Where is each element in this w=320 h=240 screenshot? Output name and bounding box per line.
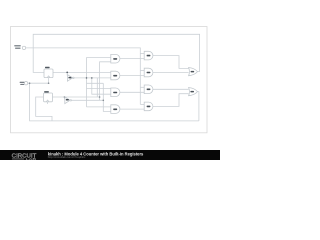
- wire L3 bottom input riser: [92, 78, 111, 94]
- AND gate L4: [111, 105, 120, 114]
- wire FF2 clock stub: [47, 102, 49, 104]
- wire INV2 input drop: [64, 97, 66, 99]
- wire OR2 out down: [197, 92, 199, 121]
- AND gate R4: [144, 102, 153, 111]
- D flip-flop FF1: [44, 67, 53, 78]
- wire top feedback bus: [33, 34, 199, 72]
- junction at FF1 clock tap: [48, 82, 50, 84]
- wire crossbar riser: [96, 78, 98, 97]
- AND gate R1: [144, 51, 153, 60]
- wire CLK1 input run: [26, 48, 141, 105]
- wire L1 out to R1: [120, 58, 144, 60]
- junction on Q1-bar wire at riser x=91.8: [91, 77, 93, 79]
- AND gate L3: [111, 88, 120, 97]
- svg-text:http://circuitlab.com/c/7eq44c: http://circuitlab.com/c/7eq44cx: [48, 155, 86, 159]
- svg-text:LAB: LAB: [26, 157, 37, 161]
- AND gate L2: [111, 71, 120, 80]
- wire R4 top stub: [140, 103, 144, 105]
- junction on Q2 wire at riser x=99.6: [99, 96, 101, 98]
- wire L3 out to R3: [120, 91, 144, 93]
- junction on Q1-bar wire at riser x=86.5: [86, 77, 88, 79]
- wire FF1 clock stub: [48, 78, 50, 84]
- wire L1 bottom input: [100, 62, 111, 101]
- wire L4 bottom input dropper: [103, 83, 111, 111]
- wire OR1 out: [198, 71, 200, 73]
- AND gate L1: [111, 54, 120, 63]
- wire L4 out to R4: [120, 108, 144, 110]
- OR gate OR2: [189, 88, 198, 96]
- junction at clock branch to bottom bus: [29, 82, 31, 84]
- wire mid jog: [87, 82, 104, 84]
- wire FF1 Q to L2 top: [53, 71, 111, 73]
- wire L2 out to R2: [120, 75, 144, 77]
- input terminal IN1: [14, 45, 25, 49]
- D flip-flop FF2: [44, 91, 53, 102]
- inverter INV1: [67, 75, 74, 82]
- junction at INV2 input tap on Q2 wire: [64, 96, 66, 98]
- schematic border: [11, 27, 208, 133]
- wire INV1 out to L2 bottom: [74, 77, 111, 79]
- wire INV1 input drop: [66, 72, 68, 75]
- AND gate R2: [144, 68, 153, 77]
- wire FF2 Q run: [53, 96, 100, 98]
- wire R4 out to OR2 bottom: [153, 94, 189, 107]
- wire L1 top input: [87, 58, 111, 107]
- wire R3 out to OR2 top: [153, 88, 189, 90]
- input terminal IN2: [20, 82, 28, 85]
- wire R1 top stub: [140, 53, 144, 55]
- wire R2 out to OR1 bottom: [153, 72, 189, 74]
- wire R3 top stub: [140, 86, 144, 88]
- footer bar: [0, 150, 220, 160]
- AND gate R3: [144, 85, 153, 94]
- wire R2 top stub: [140, 70, 144, 72]
- wire IN2 to FF1 clock: [28, 82, 49, 84]
- wire clock bottom branch: [30, 83, 199, 121]
- wire L3 top input: [87, 87, 111, 89]
- CircuitLab logo: [12, 154, 37, 162]
- wire FF2 D feedback: [36, 97, 52, 121]
- junction at INV1 input tap on Q1 wire: [66, 72, 68, 74]
- wire INV2 out: [72, 99, 104, 101]
- wire L4 top input: [87, 106, 111, 108]
- junction on INV2 output at dropper x=103.3: [103, 100, 105, 102]
- OR gate OR1: [189, 68, 198, 76]
- inverter INV2: [65, 97, 72, 104]
- wire R1 out to OR1 top: [153, 56, 189, 69]
